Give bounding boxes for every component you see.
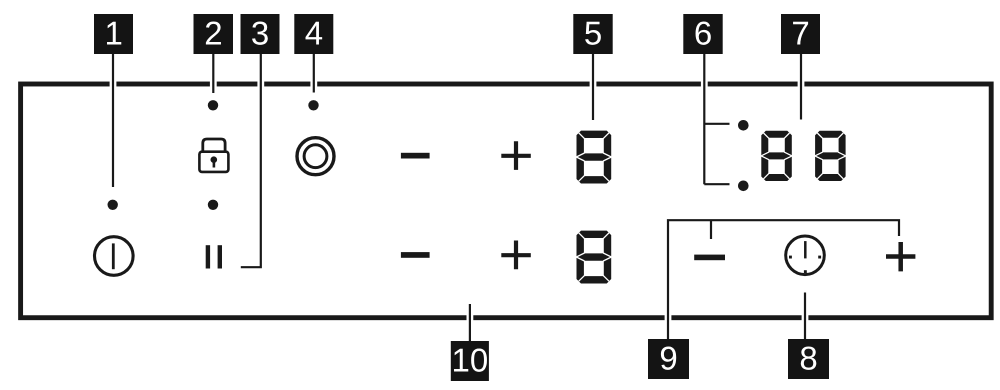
leader line halo for callout 2 [210, 54, 217, 93]
leader line callout 6 (bracket with two arms) [704, 54, 729, 184]
callout box 6 [683, 14, 722, 54]
minus key row 1 [401, 153, 430, 159]
heat display digit row 2 [576, 231, 611, 284]
svg-text:3: 3 [251, 14, 269, 51]
leader line callout 5 [592, 54, 594, 120]
leader line halo for callout 9 [665, 220, 672, 340]
leader line halo for callout 1 [110, 54, 117, 187]
timer icon (callout 8) [786, 236, 825, 275]
power indicator dot (callout 1) [108, 200, 118, 210]
svg-text:6: 6 [694, 14, 712, 51]
power button icon [95, 237, 134, 276]
control panel outline [21, 84, 992, 318]
key lock icon [199, 139, 228, 172]
callout box 4 [294, 14, 333, 54]
timer indicator dot lower [738, 181, 749, 192]
svg-text:10: 10 [452, 341, 489, 378]
lock indicator dot lower [208, 200, 218, 210]
leader line callout 8 [804, 293, 806, 341]
plus key row 2 [501, 241, 531, 270]
leader line halo for callout 4 [310, 54, 317, 93]
callout box 10 [451, 341, 489, 381]
minus key row 2 [401, 252, 430, 258]
callout box 7 [781, 14, 820, 54]
lock indicator dot upper (callout 2) [208, 100, 218, 110]
leader line halo for callout 10 [466, 304, 473, 342]
callout box 1 [94, 14, 133, 54]
pause icon (callout 3) [206, 245, 222, 268]
leader line halo for callout 7 [798, 54, 805, 120]
leader line callout 10 [469, 304, 471, 342]
leader line halo for callout 5 [590, 54, 597, 120]
timer display digit 2 [815, 131, 846, 181]
svg-text:1: 1 [105, 14, 123, 51]
leader line callout 3 (elbow to pause symbol) [241, 54, 261, 267]
callout box 3 [241, 14, 280, 54]
leader line halo for callout 8 [802, 293, 809, 341]
leader line callout 1 [112, 54, 114, 187]
timer indicator dot upper (callout 6) [738, 120, 749, 131]
timer plus key [886, 242, 915, 271]
leader line callout 7 [800, 54, 802, 120]
callout box 9 [648, 339, 689, 379]
svg-text:7: 7 [791, 14, 809, 51]
callout box 2 [194, 14, 234, 54]
leader line halo for callout 3 [257, 54, 264, 267]
callout box 8 [788, 339, 829, 379]
leader line callout 4 [313, 54, 315, 93]
callout box 5 [573, 14, 612, 54]
timer minus key (callout 9) [694, 255, 725, 261]
timer display digit 1 (callout 7) [761, 131, 792, 181]
svg-text:8: 8 [799, 339, 817, 376]
svg-text:2: 2 [204, 14, 222, 51]
plus key row 1 [501, 141, 531, 170]
leader line callout 9 (bracket over minus, timer, plus) [668, 220, 899, 340]
svg-text:5: 5 [584, 14, 602, 51]
svg-text:9: 9 [659, 339, 677, 376]
leader line halo for callout 6 [701, 54, 708, 184]
leader line callout 2 [212, 54, 214, 93]
heat-up / ring icon [297, 138, 334, 175]
svg-text:4: 4 [305, 14, 323, 51]
heat display digit row 1 (callout 5) [576, 131, 611, 184]
heat-up function indicator dot (callout 4) [308, 100, 318, 110]
